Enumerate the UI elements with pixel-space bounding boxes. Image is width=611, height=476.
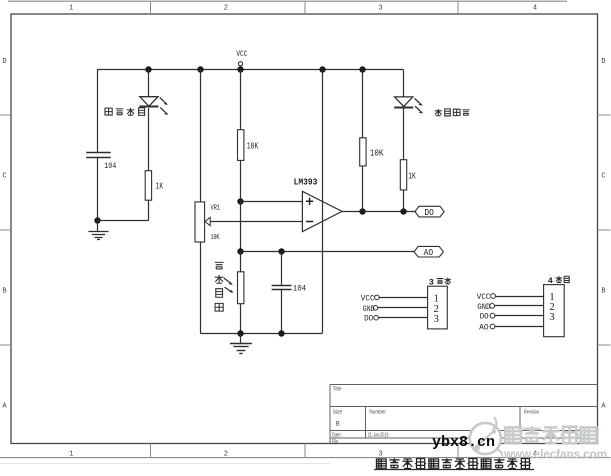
junction output R2 bbox=[359, 208, 365, 214]
svg-text:4: 4 bbox=[548, 276, 553, 286]
junction output R4/LED2 bbox=[400, 208, 406, 214]
wire plus node down to AO node bbox=[240, 201, 242, 251]
svg-text:AO: AO bbox=[479, 325, 489, 333]
wire LED1 anode bbox=[148, 70, 150, 98]
wire LED1 cathode to R1 bbox=[148, 108, 150, 171]
wire J1 GND bbox=[378, 307, 428, 309]
wire J2 VCC bbox=[495, 296, 543, 298]
junction C1/R1 ground node bbox=[94, 217, 100, 223]
wire photoresistor top bbox=[240, 252, 242, 272]
wire R3 top bbox=[240, 70, 242, 130]
wire opamp output bbox=[342, 211, 415, 213]
faint page artifact line bbox=[0, 463, 330, 465]
svg-text:2: 2 bbox=[224, 5, 228, 13]
caption underline bbox=[374, 469, 534, 471]
svg-text:B: B bbox=[601, 287, 605, 295]
svg-text:LM393: LM393 bbox=[294, 176, 318, 187]
wire LED2 to R4 bbox=[403, 108, 405, 159]
svg-text:Number: Number bbox=[369, 410, 386, 416]
resistor R4 1K bbox=[400, 160, 406, 190]
resistor R2 10K bbox=[360, 138, 366, 166]
svg-text:1K: 1K bbox=[408, 171, 416, 182]
svg-text:3: 3 bbox=[378, 451, 382, 459]
junction ground rail photoresistor bbox=[237, 330, 243, 336]
svg-text:10K: 10K bbox=[247, 141, 259, 151]
svg-text:DO: DO bbox=[480, 314, 489, 322]
wire VCC stub to rail bbox=[240, 67, 242, 70]
LED D2 switch indicator bbox=[394, 97, 423, 114]
svg-text:104: 104 bbox=[293, 284, 306, 293]
junction AO node at C2 bbox=[278, 248, 284, 254]
terminal circle GND J1 bbox=[373, 306, 378, 311]
wire C1 to ground junction bbox=[97, 157, 99, 221]
svg-text:3: 3 bbox=[429, 278, 434, 288]
svg-text:DO: DO bbox=[364, 316, 373, 324]
zone ticks right bbox=[598, 115, 611, 345]
svg-text:10K: 10K bbox=[211, 234, 220, 242]
op-amp U1 LM393 bbox=[302, 191, 342, 231]
junction at R2-10K branch bbox=[359, 66, 365, 72]
caption 光敏电阻传感器模块电路图 bbox=[376, 458, 531, 468]
svg-text:GND: GND bbox=[477, 304, 491, 312]
svg-text:D: D bbox=[2, 58, 6, 66]
svg-text:B: B bbox=[2, 287, 6, 295]
wire R4 to output bbox=[403, 190, 405, 211]
wire R2 bottom to output bbox=[362, 166, 364, 211]
junction at LED1 branch bbox=[145, 66, 151, 72]
svg-text:B: B bbox=[336, 422, 340, 428]
svg-text:Title: Title bbox=[333, 386, 342, 392]
svg-text:DO: DO bbox=[424, 208, 434, 218]
svg-text:21-Jun-2013: 21-Jun-2013 bbox=[368, 432, 389, 438]
svg-text:3: 3 bbox=[549, 312, 554, 323]
svg-text:VCC: VCC bbox=[477, 294, 491, 302]
ground rail wire bbox=[200, 333, 322, 335]
net VCC top rail wire bbox=[97, 69, 404, 71]
svg-text:1: 1 bbox=[69, 5, 73, 13]
svg-text:C: C bbox=[601, 172, 605, 180]
LED D1 power indicator bbox=[139, 97, 168, 115]
port DO bbox=[415, 206, 444, 218]
wire J2 GND bbox=[494, 305, 543, 307]
wire VR1 bottom to ground rail bbox=[200, 242, 202, 334]
wire photoresistor bottom bbox=[240, 304, 242, 334]
svg-text:AO: AO bbox=[424, 248, 434, 258]
svg-text:File:: File: bbox=[332, 439, 339, 445]
terminal circle GND J2 bbox=[490, 304, 495, 309]
svg-text:2: 2 bbox=[224, 451, 228, 459]
title block frame bbox=[330, 385, 598, 444]
wire J2 DO bbox=[495, 315, 544, 317]
svg-text:ybx8.cn: ybx8.cn bbox=[432, 434, 495, 451]
terminal circle AO J2 bbox=[490, 324, 495, 329]
junction at VR1 branch bbox=[197, 66, 203, 72]
pointer arrows to photoresistor bbox=[224, 278, 230, 283]
terminal circle DO J1 bbox=[374, 315, 379, 320]
power port VCC bbox=[236, 50, 247, 66]
zone ticks left bbox=[0, 115, 11, 345]
potentiometer VR1 10K bbox=[195, 202, 210, 242]
svg-text:Size: Size bbox=[333, 410, 343, 416]
wire J2 AO bbox=[495, 326, 544, 328]
photoresistor RG 光敏电阻 bbox=[238, 272, 244, 304]
wire R2 top bbox=[362, 70, 364, 138]
watermark 电子发烧友 calligraphy bbox=[505, 426, 597, 443]
junction ground rail C2 bbox=[278, 330, 284, 336]
wire cap C1 branch down bbox=[97, 70, 99, 153]
label 4线制 (with digit 4) bbox=[556, 276, 570, 282]
wire plus node to opamp plus input bbox=[241, 201, 303, 203]
terminal circle VCC J1 bbox=[375, 295, 380, 300]
wire R3 bottom to plus node bbox=[240, 160, 242, 201]
wire VR1 top bbox=[200, 70, 202, 202]
junction plus input node bbox=[237, 198, 243, 204]
wire C2 top bbox=[281, 252, 283, 285]
wire C2 bottom bbox=[281, 290, 283, 334]
svg-text:104: 104 bbox=[104, 162, 116, 171]
watermark elecfans logo circle bbox=[470, 417, 502, 456]
zone ticks top bbox=[151, 2, 459, 15]
label 开关指示 (switch indicator) bbox=[435, 109, 470, 116]
svg-text:Date: Date bbox=[332, 432, 341, 438]
svg-text:C: C bbox=[2, 172, 6, 180]
ground symbol left bbox=[88, 221, 108, 240]
svg-text:www.elecfans.com: www.elecfans.com bbox=[503, 449, 607, 461]
label 3线制 (with digit 3) bbox=[437, 278, 451, 284]
capacitor C1 104 bbox=[86, 153, 111, 158]
title block column separators bbox=[366, 407, 521, 439]
junction at opamp V+ branch bbox=[319, 66, 325, 72]
svg-text:D: D bbox=[601, 58, 605, 66]
capacitor C2 104 bbox=[272, 286, 292, 290]
terminal circle DO J2 bbox=[490, 313, 495, 318]
svg-text:1: 1 bbox=[69, 451, 73, 459]
wire ground node to R1 bottom bbox=[98, 220, 149, 222]
svg-text:3: 3 bbox=[434, 314, 439, 325]
label 光敏电阻 (photoresistor) vertical bbox=[215, 262, 224, 311]
connector J2 4线制 header bbox=[544, 285, 565, 337]
junction at R-10K branch bbox=[237, 66, 243, 72]
port AO bbox=[414, 246, 443, 258]
svg-text:1: 1 bbox=[434, 293, 439, 304]
junction AO node at photoresistor bbox=[237, 248, 243, 254]
resistor R3 10K bbox=[238, 130, 244, 161]
wire J1 VCC bbox=[379, 297, 428, 299]
terminal circle VCC J2 bbox=[491, 294, 496, 299]
wire VR1 wiper to opamp minus input bbox=[210, 221, 302, 223]
svg-text:4: 4 bbox=[533, 5, 537, 13]
svg-text:GND: GND bbox=[363, 306, 375, 314]
zone ticks bottom bbox=[151, 444, 459, 458]
wire R1 to ground wire bbox=[148, 200, 150, 221]
svg-text:VR1: VR1 bbox=[211, 204, 221, 212]
resistor R1 1K bbox=[145, 171, 151, 201]
label 电源指示 (power indicator) bbox=[105, 108, 145, 116]
ground symbol main bbox=[230, 334, 252, 354]
net AO wire to port bbox=[241, 251, 414, 253]
svg-text:3: 3 bbox=[378, 5, 382, 13]
svg-text:VCC: VCC bbox=[361, 295, 375, 303]
svg-text:Revision: Revision bbox=[524, 410, 539, 416]
svg-text:VCC: VCC bbox=[236, 50, 247, 59]
svg-text:1K: 1K bbox=[156, 180, 164, 191]
wire J1 DO bbox=[378, 317, 427, 319]
wire rail corner to LED2 bbox=[403, 70, 405, 98]
svg-text:10K: 10K bbox=[370, 148, 384, 158]
wire opamp power rail vertical bbox=[322, 70, 324, 334]
connector J1 3线制 header bbox=[428, 286, 448, 329]
